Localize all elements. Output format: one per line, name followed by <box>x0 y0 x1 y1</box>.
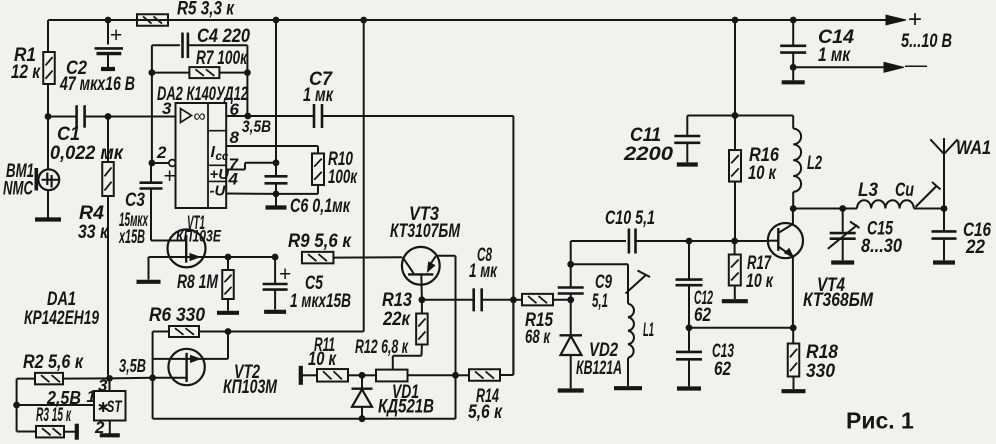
wire R2 right <box>63 377 110 379</box>
label R1 12k <box>11 44 41 83</box>
ground C13 <box>677 386 701 390</box>
label + supply <box>908 6 922 33</box>
svg-text:—: — <box>905 52 927 77</box>
transistor VT3 <box>402 247 440 300</box>
svg-text:12 к: 12 к <box>11 61 41 83</box>
resistor R1 <box>43 52 55 84</box>
ground C16 <box>933 260 955 264</box>
wire R14 right <box>500 300 513 375</box>
wire base row <box>422 299 514 301</box>
label C3 <box>118 189 148 248</box>
resistor R18 <box>788 328 800 377</box>
svg-text:10 к: 10 к <box>748 162 777 184</box>
svg-text:L2: L2 <box>807 152 822 174</box>
label R2 5,6k <box>23 351 84 373</box>
label C11 <box>623 124 673 165</box>
wire C10 right row <box>636 240 768 242</box>
svg-text:22к: 22к <box>382 308 411 330</box>
capacitor C15 trimmer <box>828 209 860 261</box>
caption Ris.1 <box>846 408 914 434</box>
wire feedback left vertical <box>152 45 180 163</box>
svg-text:R2 5,6 к: R2 5,6 к <box>23 351 84 373</box>
svg-text:NМС: NМС <box>3 178 34 200</box>
wire pin6 corner down <box>512 116 514 375</box>
capacitor C10 <box>629 229 636 254</box>
wire R15 right <box>553 299 571 301</box>
svg-text:62: 62 <box>694 304 711 326</box>
label R12 6,8k <box>355 336 409 358</box>
label pin2 <box>94 418 105 437</box>
op-amp DA2 box <box>176 103 227 208</box>
label WA1 <box>956 137 991 159</box>
svg-text:-U: -U <box>210 183 227 200</box>
capacitor C11 <box>674 116 700 143</box>
junction R1-BM1 <box>45 113 52 120</box>
pin 2 bubble <box>169 160 176 167</box>
wire R11 left <box>302 374 317 376</box>
junction VD1 top <box>359 372 366 379</box>
capacitor C16 <box>932 209 957 261</box>
svg-text:∞: ∞ <box>194 107 206 126</box>
svg-text:L3: L3 <box>858 179 878 201</box>
junction C5 top <box>272 254 279 261</box>
svg-text:1 мк: 1 мк <box>303 84 334 106</box>
svg-text:R7 100к: R7 100к <box>196 47 248 69</box>
junction feedback-pin6 <box>244 113 251 120</box>
pin 4 label <box>228 170 239 189</box>
wire R18 bottom <box>793 377 795 390</box>
arrowhead - output <box>884 62 904 72</box>
junction R16-R17 node <box>731 238 738 245</box>
svg-text:R9 5,6 к: R9 5,6 к <box>288 230 352 252</box>
wire R11 right <box>348 374 362 376</box>
wire VT3 collector <box>437 256 456 419</box>
label R11 <box>308 334 337 370</box>
wire R1 bottom <box>47 84 49 117</box>
label Cu <box>895 179 914 201</box>
junction supply drop 276 <box>273 17 280 24</box>
svg-text:330: 330 <box>806 360 835 382</box>
wire C11 bottom <box>686 143 688 163</box>
op-amp triangle symbol <box>181 107 206 126</box>
label C6 <box>290 195 351 217</box>
svg-text:8: 8 <box>230 128 240 147</box>
label R14 <box>468 385 503 423</box>
wire pin4 <box>226 193 276 195</box>
arrow VT1 gate <box>190 254 200 261</box>
resistor R16 <box>729 150 741 182</box>
pin 2 label <box>156 143 167 162</box>
ground C5 <box>264 310 286 314</box>
wire L1 tap row <box>571 263 628 265</box>
svg-text:+: + <box>164 165 176 188</box>
svg-text:+: + <box>908 6 922 33</box>
wire VT2 drain drop <box>153 332 228 359</box>
wire pin1 <box>17 404 94 406</box>
svg-text:10 к: 10 к <box>308 348 337 370</box>
svg-text:5,1: 5,1 <box>592 290 608 312</box>
label R13 <box>382 289 412 330</box>
wire pin7 step <box>226 163 276 170</box>
svg-text:100к: 100к <box>328 166 358 188</box>
capacitor C12 <box>676 241 703 285</box>
pin 3 label <box>162 99 172 118</box>
label VD2 <box>576 339 622 379</box>
junction VT3 base node <box>419 296 426 303</box>
label R18 <box>806 341 838 382</box>
junction L1 tap <box>567 261 574 268</box>
label DA2 K140UD12 <box>157 83 248 105</box>
resistor R17 <box>729 241 741 286</box>
label - supply <box>905 52 927 77</box>
wire R17 bottom <box>734 286 736 300</box>
label C13 <box>712 340 734 380</box>
ground C11 <box>677 162 698 166</box>
junction R12-R14 node <box>452 372 459 379</box>
junction L2-VT4 node <box>790 205 797 212</box>
pin 6 label <box>230 100 240 119</box>
junction R6 rail <box>225 328 232 335</box>
ground C6 <box>266 205 287 209</box>
svg-text:22: 22 <box>965 236 985 258</box>
resistor R8 <box>222 257 234 299</box>
wire C6 bottom <box>275 183 277 205</box>
resistor R13 <box>416 300 428 345</box>
wire R12 left <box>362 374 376 376</box>
label C9 <box>592 271 612 312</box>
wire C9 top corner <box>571 241 626 264</box>
diode VD1 <box>352 375 373 418</box>
junction R7 left <box>149 69 156 76</box>
label C10 5,1 <box>605 207 655 229</box>
svg-text:КП103Е: КП103Е <box>176 227 221 246</box>
svg-text:8...30: 8...30 <box>861 235 902 257</box>
wire VT4 emitter <box>792 256 794 327</box>
label R9 5,6k <box>288 230 352 252</box>
wire VT1 left down <box>148 257 150 280</box>
svg-text:2200: 2200 <box>623 143 673 165</box>
label R17 <box>746 252 774 292</box>
resistor R9 <box>302 252 334 264</box>
junction supply drop 735 <box>732 17 739 24</box>
svg-text:х15В: х15В <box>118 226 145 248</box>
arrow VT4 emitter <box>785 249 794 258</box>
wire C11-L2 row <box>687 115 793 117</box>
wire C12 bottom <box>688 285 690 328</box>
svg-text:1 мк: 1 мк <box>469 260 498 282</box>
svg-text:10 к: 10 к <box>746 270 774 292</box>
svg-text:С10 5,1: С10 5,1 <box>605 207 655 229</box>
svg-text:5...10 В: 5...10 В <box>901 30 952 52</box>
svg-text:КТ368БМ: КТ368БМ <box>803 289 874 311</box>
ground L1 <box>614 386 642 390</box>
label C5 <box>290 272 351 312</box>
svg-text:5,6 к: 5,6 к <box>468 401 503 423</box>
junction C14-minus <box>790 64 797 71</box>
wire C3 top stem <box>150 163 152 183</box>
wire C5 bottom <box>274 290 276 310</box>
wire R16 bottom <box>734 182 736 242</box>
svg-text:1 мкх15В: 1 мкх15В <box>290 290 351 312</box>
label VT4 <box>803 274 874 311</box>
label R3 15k <box>36 404 72 426</box>
junction pin4 node <box>273 191 280 198</box>
ground C15 <box>831 260 854 264</box>
svg-text:3,5В: 3,5В <box>242 117 271 136</box>
junction emitter node <box>790 324 797 331</box>
capacitor C2 <box>95 24 123 54</box>
resistor R3 <box>36 426 64 438</box>
label R6 330 <box>149 304 205 326</box>
capacitor C6 <box>265 176 288 183</box>
label DA1 <box>24 288 99 329</box>
wire R1 top <box>47 20 49 52</box>
label 3,5V at pin6 <box>242 117 271 136</box>
label C15 <box>861 218 902 258</box>
ground R3 bar <box>75 424 79 440</box>
junction C11-L2 row <box>732 112 739 119</box>
svg-text:33 к: 33 к <box>78 221 109 243</box>
junction antenna node <box>941 205 948 212</box>
label ST symbol <box>98 398 123 416</box>
wire R6 left <box>153 332 169 419</box>
wire pin8 <box>226 146 318 154</box>
label R10 <box>328 148 358 188</box>
capacitor C13 <box>676 328 702 360</box>
trimmer Cu arrow <box>916 182 941 207</box>
wire C3 bottom to VT1 <box>151 189 186 241</box>
wire C14 bottom <box>792 53 794 81</box>
junction C9-VD2 node <box>567 296 574 303</box>
arrow VT3 emitter <box>428 262 435 272</box>
label minus-U <box>210 183 227 200</box>
wire R8 bottom <box>227 299 229 311</box>
wire supply drop 276 <box>275 20 277 176</box>
svg-text:С6 0,1мк: С6 0,1мк <box>290 195 351 217</box>
label R4 <box>78 202 109 243</box>
label C14 <box>818 26 854 66</box>
ground R18 <box>782 389 806 393</box>
resistor R5 <box>137 14 168 26</box>
label VT3 <box>390 203 461 242</box>
svg-text:WA1: WA1 <box>956 137 991 159</box>
wire C13 bottom <box>688 359 690 386</box>
svg-text:КР142ЕН19: КР142ЕН19 <box>24 307 99 329</box>
wire R12 right <box>408 374 456 376</box>
svg-text:КД521В: КД521В <box>378 396 434 418</box>
junction pin7 node <box>273 159 280 166</box>
label 5...10 V <box>901 30 952 52</box>
label C7 <box>303 68 334 106</box>
junction pin1 node <box>13 402 20 409</box>
svg-text:2: 2 <box>156 143 167 162</box>
resistor R2 <box>35 373 63 385</box>
arrowhead + output <box>886 15 906 25</box>
junction VT2 gate node <box>149 374 156 381</box>
svg-text:4: 4 <box>228 170 239 189</box>
variable resistor R12 <box>376 370 408 382</box>
regulator DA1 ST box <box>94 391 126 421</box>
wire C2 stem bottom <box>107 55 109 67</box>
wire ST pin2 <box>109 421 111 434</box>
pin 7 label <box>229 155 240 174</box>
label C1 <box>50 123 124 164</box>
label VT2 <box>223 361 278 398</box>
wire +supply top rail <box>48 19 897 21</box>
wire R2 left loop <box>17 379 36 432</box>
svg-text:62: 62 <box>714 358 731 380</box>
trimmer arrow L1 <box>626 271 651 294</box>
resistor R6 <box>169 326 199 337</box>
wire R7 right <box>219 72 247 74</box>
wire R7 left <box>152 72 190 74</box>
ground R11 bar <box>299 366 303 385</box>
resistor R11 <box>317 369 348 382</box>
label C2 value <box>59 57 135 95</box>
svg-text:С4 220: С4 220 <box>197 25 250 47</box>
wire - output <box>793 66 890 68</box>
junction C2 top <box>105 17 112 24</box>
svg-text:R8 1М: R8 1М <box>177 271 219 293</box>
label R5 3,3 k <box>177 0 235 20</box>
junction R4 top <box>105 113 112 120</box>
wire R10 bottom <box>276 185 318 194</box>
wire pin6 row <box>226 115 513 117</box>
wire ST pin3 <box>109 378 111 391</box>
inductor L2 <box>793 116 801 209</box>
label L3 <box>858 179 878 201</box>
resistor R4 <box>102 117 114 197</box>
label VD1 <box>378 381 434 418</box>
junction R8 top <box>225 254 232 261</box>
transistor VT2 <box>153 349 205 385</box>
svg-text:cc: cc <box>216 151 229 163</box>
svg-text:КП103М: КП103М <box>223 376 278 398</box>
label BM1 <box>3 160 34 200</box>
label L1 <box>643 319 654 341</box>
label R7 100k <box>196 47 248 69</box>
svg-text:3: 3 <box>162 99 172 118</box>
capacitor C4 <box>183 33 188 59</box>
junction pin2 node <box>149 160 156 167</box>
label 3,5V <box>119 356 146 376</box>
label C16 <box>963 219 991 258</box>
transistor VT1 <box>149 229 276 267</box>
ground R8 <box>217 311 239 315</box>
wire R3 right <box>64 431 75 433</box>
wire output row <box>793 208 857 210</box>
svg-text:Cu: Cu <box>895 179 914 201</box>
svg-text:L1: L1 <box>643 319 654 341</box>
wire R4 bottom <box>107 196 109 378</box>
label VT1 <box>176 212 221 246</box>
transistor VT4 <box>768 223 803 258</box>
wire R13 bottom wiper <box>393 345 422 370</box>
capacitor C7 <box>314 104 322 128</box>
ground R17 <box>722 299 748 303</box>
capacitor C3 <box>140 165 176 189</box>
svg-text:R6 330: R6 330 <box>149 304 205 326</box>
label L2 <box>807 152 822 174</box>
junction C14 top <box>790 17 797 24</box>
svg-text:R5 3,3 к: R5 3,3 к <box>177 0 235 20</box>
ground ST <box>100 433 120 437</box>
microphone BM1 <box>36 117 59 218</box>
wire emitter row <box>689 327 793 329</box>
svg-text:R12 6,8 к: R12 6,8 к <box>355 336 409 358</box>
ground VD2 <box>558 388 584 392</box>
svg-text:ST: ST <box>107 398 123 416</box>
wire pin2 <box>152 162 169 164</box>
ground C14 <box>782 80 805 84</box>
label C8 <box>469 244 498 282</box>
junction R7 right <box>244 69 251 76</box>
svg-text:3: 3 <box>98 376 108 395</box>
diode VD2 varicap <box>560 300 583 389</box>
junction 3,5V node <box>106 375 113 382</box>
ground VT1 <box>137 280 161 284</box>
capacitor C5 <box>263 257 292 290</box>
arrow VT2 <box>191 356 201 363</box>
svg-text:+: + <box>110 24 122 47</box>
svg-text:0,022 мк: 0,022 мк <box>50 142 124 164</box>
label C4 220 <box>197 25 250 47</box>
capacitor C8 <box>474 288 482 311</box>
ground BM1 <box>35 217 61 221</box>
label Icc <box>211 144 229 163</box>
junction supply drop 363 <box>360 17 367 24</box>
label 2,5V <box>46 388 81 408</box>
label R8 1M <box>177 271 219 293</box>
wire C4 right <box>188 45 248 116</box>
wire C2 stem top <box>107 20 109 45</box>
label C12 <box>694 287 713 326</box>
wire supply drop 735 <box>734 20 736 150</box>
resistor R15 <box>513 294 553 306</box>
pin 8 label <box>230 128 240 147</box>
svg-text:КВ121А: КВ121А <box>576 357 622 379</box>
resistor R10 <box>312 153 324 185</box>
wire R9 right <box>334 256 403 258</box>
inductor L1 <box>628 264 634 386</box>
wire bottom rail <box>153 375 456 419</box>
wire supply drop 363 <box>199 20 364 332</box>
capacitor C9 <box>558 264 584 300</box>
svg-text:47 мкх16 В: 47 мкх16 В <box>59 73 135 95</box>
label R15 <box>525 309 554 348</box>
junction C15 top <box>839 205 846 212</box>
wire mic row <box>48 116 176 118</box>
junction C12 top <box>686 238 693 245</box>
resistor R7 <box>189 67 219 78</box>
wire 3,5V row <box>110 377 153 380</box>
junction C12-C13 <box>686 324 693 331</box>
antenna WA1 <box>930 138 957 209</box>
svg-text:Рис. 1: Рис. 1 <box>846 408 914 434</box>
label pin3 <box>98 376 108 395</box>
svg-text:1 мк: 1 мк <box>818 44 851 66</box>
label R16 <box>748 144 779 184</box>
svg-text:+: + <box>279 263 291 286</box>
svg-text:КТ3107БМ: КТ3107БМ <box>390 220 461 242</box>
label pin1 <box>87 387 96 406</box>
resistor R14 <box>456 369 501 381</box>
svg-text:68 к: 68 к <box>525 326 551 348</box>
junction VD1 bottom <box>359 415 366 422</box>
wire L3 right <box>914 208 944 210</box>
wire VT4 collector <box>792 209 794 225</box>
svg-text:3,5В: 3,5В <box>119 356 146 376</box>
